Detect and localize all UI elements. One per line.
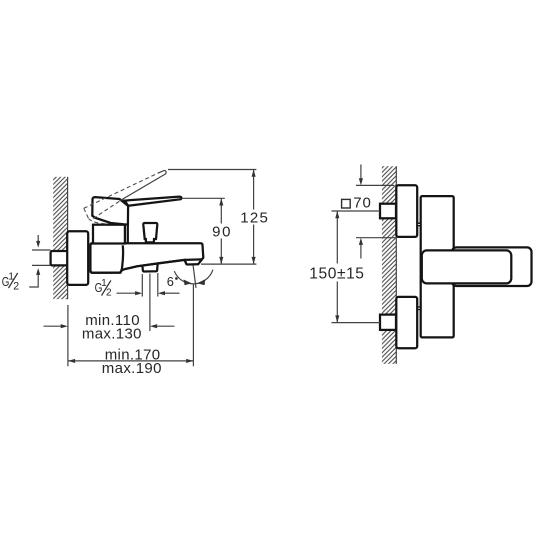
- upper tick connector: [417, 223, 421, 225]
- dashed handle upper edge (open position): [84, 173, 158, 208]
- svg-text:70: 70: [353, 195, 372, 212]
- dashed handle lower edge over skirt: [93, 201, 120, 219]
- dim min170/max190: [68, 360, 193, 362]
- lower supply square: [380, 315, 396, 330]
- G1/2 left leader: [29, 275, 38, 288]
- dim extension line bottom (spout): [201, 263, 256, 265]
- svg-text:max.190: max.190: [102, 360, 162, 377]
- dim 125 line: [253, 170, 255, 210]
- lower escutcheon: [396, 297, 417, 348]
- svg-text:max.130: max.130: [82, 326, 142, 343]
- upper escutcheon: [396, 185, 417, 237]
- body plate: [421, 196, 454, 337]
- outlet extension line: [192, 285, 194, 367]
- handle cap (top view): [422, 250, 512, 283]
- stub extension lines: [141, 274, 143, 297]
- cap right edge internal line: [120, 245, 123, 272]
- arc arrowhead right: [197, 279, 205, 285]
- dim 150 line: [336, 211, 338, 264]
- svg-text:6: 6: [167, 274, 174, 289]
- handle lever blade (solid): [125, 197, 182, 206]
- spout tilt line 6deg: [193, 265, 196, 288]
- dim box70 ext top: [356, 184, 394, 186]
- wall hatch (left view): [53, 177, 67, 299]
- svg-text:2: 2: [106, 288, 112, 299]
- handle tip outline (thin solid): [120, 171, 167, 201]
- hose outlet stub under body: [142, 263, 157, 271]
- wall face line (left view): [67, 177, 69, 299]
- dim 90 line: [220, 198, 222, 223]
- arc arrowhead left: [184, 280, 192, 286]
- handle front face vertical line: [127, 206, 129, 243]
- dashed handle left edge: [84, 208, 89, 218]
- dim min110/max130: [44, 325, 63, 327]
- svg-text:90: 90: [212, 224, 232, 241]
- dim 150+-15 ext lower: [332, 322, 381, 324]
- stub centerline: [149, 274, 151, 332]
- lower tick connector: [417, 307, 421, 309]
- wall face line (right view): [395, 166, 397, 364]
- dim box70 ext bottom: [356, 237, 396, 239]
- dim 90 extension line top: [183, 197, 225, 199]
- dim 125 extension line top: [168, 169, 256, 171]
- wall hatch (right view): [382, 166, 396, 364]
- upper supply square: [380, 204, 396, 219]
- dim 150+-15 ext upper: [332, 210, 381, 212]
- outlet lip top line: [185, 258, 202, 261]
- svg-text:150±15: 150±15: [309, 265, 364, 282]
- wall face extension line: [67, 305, 69, 366]
- dashed handle bottom loop: [89, 219, 106, 224]
- outlet lip left slant: [185, 260, 187, 264]
- supply stub G1/2 through wall: [51, 251, 69, 265]
- handle skirt (solid, closed position): [92, 197, 128, 224]
- escutcheon (left view): [67, 231, 88, 285]
- box70 label: [342, 199, 351, 208]
- svg-text:125: 125: [240, 210, 269, 227]
- dim box70 arrows: [360, 165, 362, 180]
- body + cap + spout outline: [90, 243, 203, 272]
- spout underside reinforced line: [124, 260, 185, 269]
- G1/2 mid leader + arrows: [117, 292, 136, 294]
- swivel arc: [174, 270, 213, 284]
- diverter knob: [143, 223, 157, 242]
- G1/2 left extension lines: [32, 249, 50, 251]
- cap bottom edge: [90, 243, 120, 272]
- handle blade (top view): [452, 247, 532, 286]
- svg-text:2: 2: [13, 280, 19, 292]
- cartridge column under handle: [93, 225, 125, 244]
